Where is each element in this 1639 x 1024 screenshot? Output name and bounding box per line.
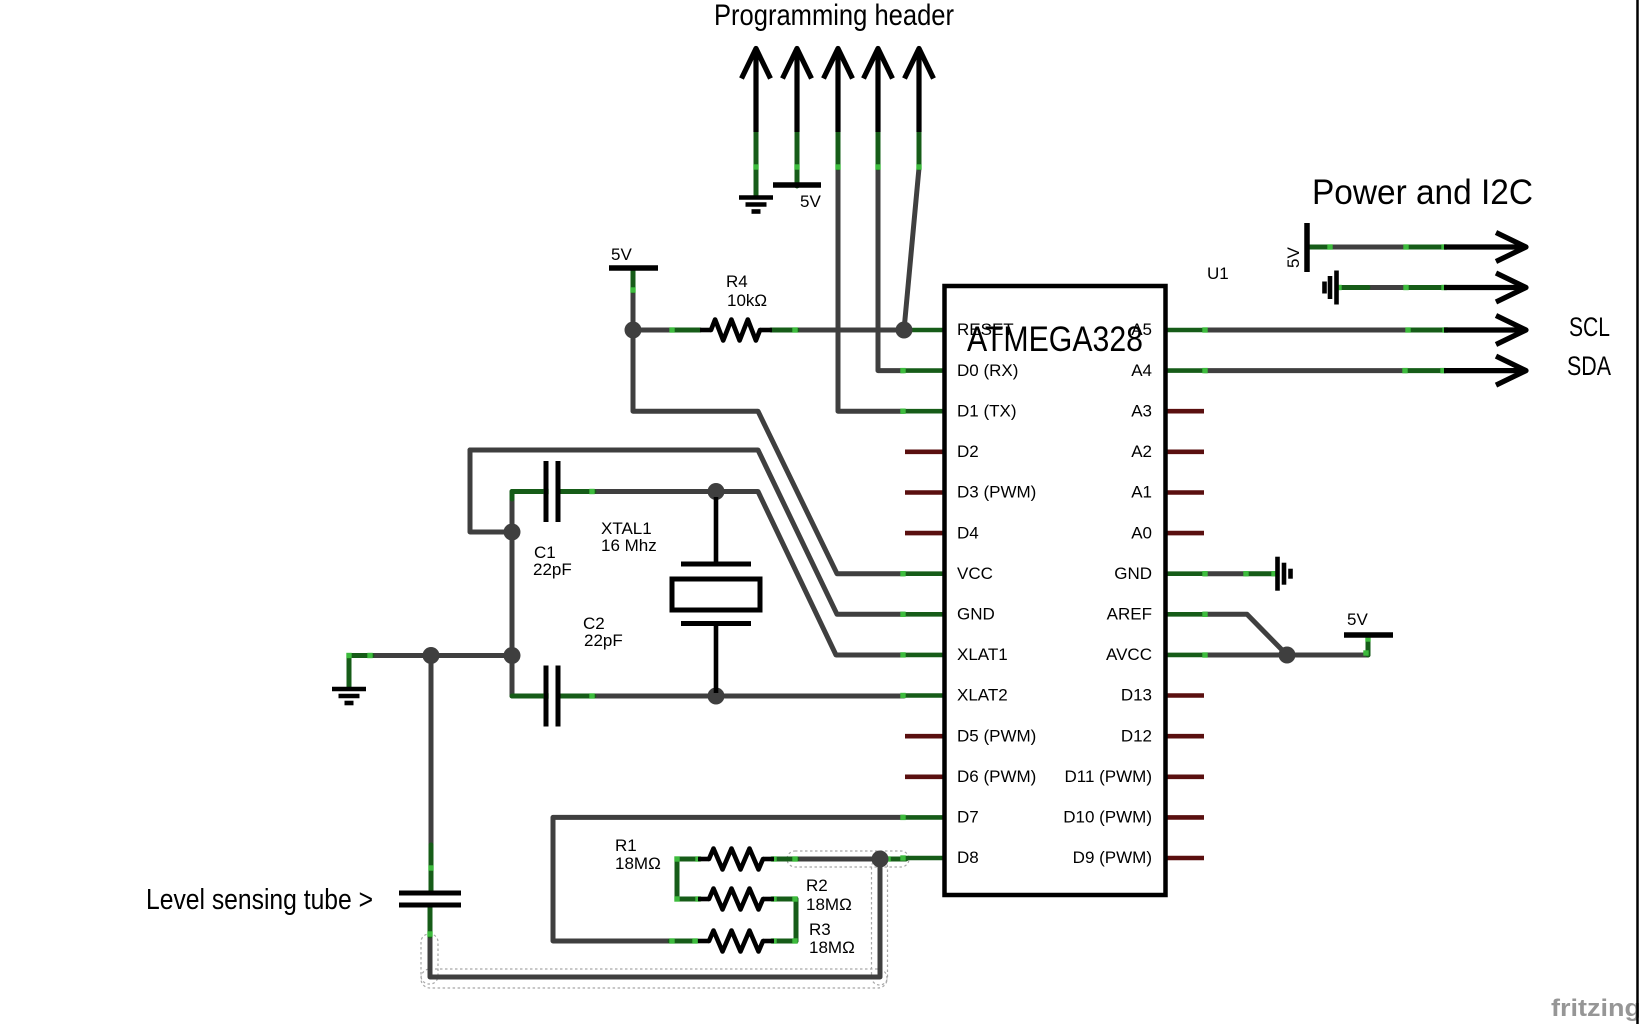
svg-text:AREF: AREF xyxy=(1107,605,1152,624)
svg-text:fritzing: fritzing xyxy=(1551,995,1639,1022)
svg-text:R3: R3 xyxy=(809,920,831,939)
svg-text:R2: R2 xyxy=(806,876,828,895)
svg-text:D2: D2 xyxy=(957,442,979,461)
svg-text:U1: U1 xyxy=(1207,264,1229,283)
svg-text:A3: A3 xyxy=(1131,401,1152,420)
svg-text:22pF: 22pF xyxy=(584,631,623,650)
svg-text:D6 (PWM): D6 (PWM) xyxy=(957,767,1036,786)
svg-text:SDA: SDA xyxy=(1567,351,1611,381)
svg-text:D7: D7 xyxy=(957,808,979,827)
svg-text:D0 (RX): D0 (RX) xyxy=(957,361,1018,380)
svg-text:D12: D12 xyxy=(1121,726,1152,745)
svg-text:D13: D13 xyxy=(1121,686,1152,705)
svg-text:A2: A2 xyxy=(1131,442,1152,461)
svg-text:R4: R4 xyxy=(726,272,748,291)
svg-text:XLAT2: XLAT2 xyxy=(957,686,1008,705)
svg-text:D11 (PWM): D11 (PWM) xyxy=(1064,767,1152,786)
svg-text:5V: 5V xyxy=(1284,247,1303,268)
svg-text:5V: 5V xyxy=(611,245,632,264)
svg-text:D5 (PWM): D5 (PWM) xyxy=(957,726,1036,745)
svg-text:AVCC: AVCC xyxy=(1106,645,1152,664)
svg-text:D8: D8 xyxy=(957,848,979,867)
svg-text:D9 (PWM): D9 (PWM) xyxy=(1073,848,1152,867)
svg-text:Power and I2C: Power and I2C xyxy=(1312,173,1533,212)
svg-text:D3 (PWM): D3 (PWM) xyxy=(957,483,1036,502)
svg-text:Level sensing tube >: Level sensing tube > xyxy=(146,884,373,916)
svg-text:R1: R1 xyxy=(615,836,637,855)
svg-text:16 Mhz: 16 Mhz xyxy=(601,536,657,555)
svg-text:5V: 5V xyxy=(1347,610,1368,629)
svg-text:A0: A0 xyxy=(1131,523,1152,542)
svg-text:SCL: SCL xyxy=(1569,312,1610,342)
svg-text:A1: A1 xyxy=(1131,483,1152,502)
svg-text:22pF: 22pF xyxy=(533,560,572,579)
svg-text:18MΩ: 18MΩ xyxy=(615,854,661,873)
svg-text:Programming header: Programming header xyxy=(714,0,954,32)
svg-text:A5: A5 xyxy=(1131,320,1152,339)
svg-text:GND: GND xyxy=(1114,564,1152,583)
svg-text:A4: A4 xyxy=(1131,361,1152,380)
svg-text:GND: GND xyxy=(957,605,995,624)
svg-text:10kΩ: 10kΩ xyxy=(727,291,767,310)
svg-text:VCC: VCC xyxy=(957,564,993,583)
svg-text:18MΩ: 18MΩ xyxy=(806,895,852,914)
svg-text:XLAT1: XLAT1 xyxy=(957,645,1008,664)
svg-text:5V: 5V xyxy=(800,192,821,211)
svg-text:RESET: RESET xyxy=(957,320,1014,339)
svg-text:D1 (TX): D1 (TX) xyxy=(957,401,1017,420)
svg-text:D4: D4 xyxy=(957,523,979,542)
svg-text:D10 (PWM): D10 (PWM) xyxy=(1063,808,1152,827)
svg-text:18MΩ: 18MΩ xyxy=(809,938,855,957)
